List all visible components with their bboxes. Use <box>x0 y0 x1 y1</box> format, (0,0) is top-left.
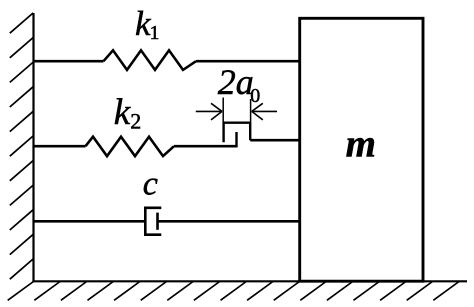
mass m <box>300 18 423 281</box>
wire (wall to spring k1) <box>33 60 104 63</box>
extension line left <box>222 98 224 122</box>
ground <box>8 281 467 300</box>
wire (spring k2 to gap stub) <box>174 145 237 148</box>
svg-text:m: m <box>346 123 376 166</box>
dimension arrow left <box>196 103 222 120</box>
damper c cylinder <box>145 208 161 235</box>
wall <box>10 13 34 282</box>
gap bracket (attached to mass) <box>224 123 251 143</box>
wire (wall to damper c) <box>33 220 145 223</box>
extension line right <box>250 99 252 122</box>
spring k2 <box>86 137 175 156</box>
spring k1 <box>104 50 197 70</box>
wire (wall to spring k2) <box>33 145 86 148</box>
wire (spring k1 to mass) <box>196 60 300 63</box>
dimension arrow right <box>252 103 277 120</box>
gap stub (on spring k2 rod) <box>235 132 237 147</box>
svg-text:c: c <box>143 166 158 203</box>
wire (gap bracket to mass) <box>250 139 300 142</box>
damper c piston <box>156 213 159 230</box>
wire (damper c to mass) <box>158 220 301 223</box>
